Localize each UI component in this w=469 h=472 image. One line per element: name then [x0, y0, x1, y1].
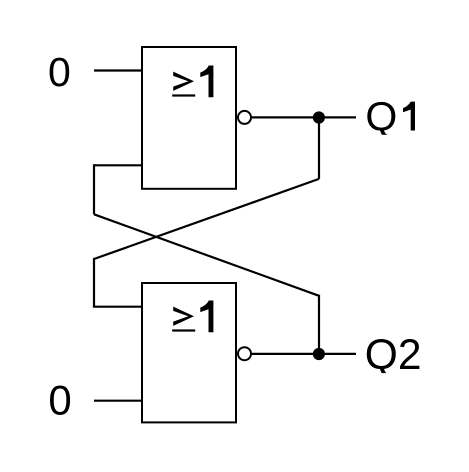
- node Q1 junction dot: [313, 111, 325, 123]
- wire Q2 feedback vertical down to node Q2: [318, 295, 320, 354]
- wire Q2 feedback vertical at left: [93, 164, 95, 214]
- gate U2 label digit 1: [200, 301, 213, 333]
- svg-text:Q2: Q2: [365, 332, 422, 379]
- wire Q1 feedback down from dot: [318, 118, 320, 179]
- node Q2 junction dot: [313, 348, 325, 360]
- wire R input to gate U2: [94, 400, 142, 402]
- white patch trimming Q1 tail: [374, 135, 396, 141]
- white patch trimming Q2 tail: [374, 373, 396, 379]
- wire Q1 feedback vertical at left: [93, 258, 95, 307]
- svg-text:Q: Q: [365, 94, 397, 140]
- wire U1 output to Q1: [252, 116, 356, 118]
- wire Q2 feedback diagonal to lower-right: [94, 214, 319, 295]
- gate U1 label &#8805; underline: [172, 94, 195, 96]
- wire Q1 feedback diagonal to lower-left: [94, 179, 319, 259]
- label Q1 digit 1: [403, 102, 415, 131]
- NOR gate U2 body: [142, 283, 236, 422]
- gate U1 label &#8805; chevron: [173, 72, 194, 91]
- svg-text:0: 0: [48, 49, 71, 95]
- gate U2 label &#8805; underline: [172, 329, 195, 331]
- gate U2 label &#8805; chevron: [173, 307, 194, 326]
- wire U1 second input from left: [94, 164, 142, 166]
- NOR gate U1 body: [142, 47, 236, 189]
- wire U2 output to Q2: [252, 353, 356, 355]
- gate U2 inversion bubble: [238, 347, 251, 360]
- gate U1 inversion bubble: [238, 111, 251, 124]
- wire S input to gate U1: [94, 69, 142, 71]
- gate U1 label digit 1: [200, 66, 213, 98]
- svg-text:0: 0: [48, 377, 71, 424]
- wire Q1 feedback into gate U2 input: [93, 306, 142, 308]
